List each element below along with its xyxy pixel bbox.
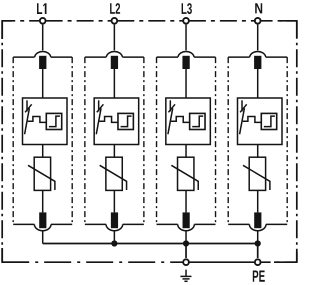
ground bar 3 <box>184 280 187 282</box>
terminal PE <box>255 259 261 265</box>
junction N/bus <box>255 240 261 246</box>
ground bar 1 <box>180 275 191 277</box>
border corner top-left <box>2 21 12 39</box>
PE bus <box>43 243 258 245</box>
label L3 <box>182 3 192 14</box>
ground bar 2 <box>183 278 190 280</box>
ground stem <box>185 270 187 277</box>
terminal L1 <box>40 18 46 24</box>
device border bottom <box>2 261 183 263</box>
terminal L2 <box>112 18 118 24</box>
device border right <box>296 21 298 262</box>
device border top (dash-dot) <box>2 20 40 22</box>
border corner bottom-right <box>274 252 297 262</box>
PE conductor solid segment <box>186 261 258 263</box>
channel 3 (L3) <box>157 25 216 244</box>
terminal earth <box>183 259 189 265</box>
wire bus to PE terminal <box>257 244 259 259</box>
junction L2/bus <box>111 240 117 246</box>
label L1 <box>37 3 47 14</box>
wire bus to earth terminal <box>185 244 187 259</box>
junction L3/bus <box>183 240 189 246</box>
border corner top-right <box>280 21 297 38</box>
channel 1 (L1) <box>13 25 72 244</box>
device border left <box>1 21 3 262</box>
terminal N <box>255 18 261 24</box>
label L2 <box>110 3 120 14</box>
terminal L3 <box>183 18 189 24</box>
label PE <box>253 271 265 282</box>
channel 4 (N) <box>228 25 287 244</box>
channel 2 (L2) <box>85 25 144 244</box>
label N <box>255 3 262 13</box>
border corner bottom-left <box>2 248 29 262</box>
